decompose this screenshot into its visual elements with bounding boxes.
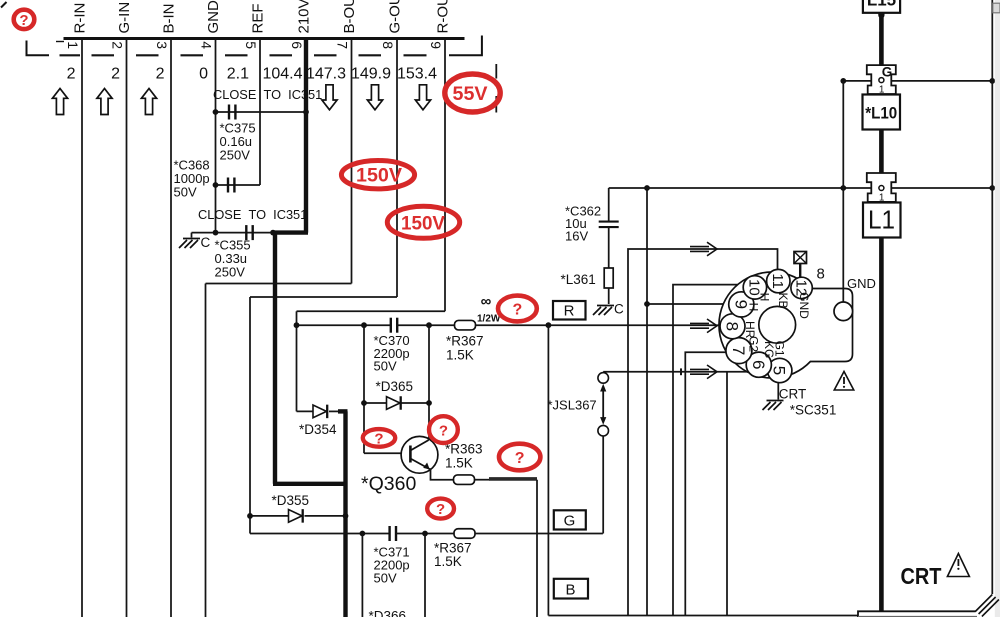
capacitor C371 xyxy=(388,526,390,541)
wire 210V thick rail down to bottom xyxy=(343,411,347,617)
X-box symbol above pin12 xyxy=(794,252,807,278)
wire collector branch vertical xyxy=(428,325,430,440)
wire pin5 REF vertical xyxy=(259,40,261,185)
svg-text:*L10: *L10 xyxy=(865,103,897,122)
wire pin3 B-IN vertical xyxy=(170,40,172,617)
wire 210V thick elbow to C355 junction xyxy=(273,230,308,234)
connector G top xyxy=(867,65,896,94)
svg-text:8: 8 xyxy=(723,322,742,331)
warning triangle CRT xyxy=(947,554,969,577)
wire pin8 G-OUT vertical xyxy=(396,40,398,297)
junction rail right top xyxy=(989,78,995,84)
wire G row left xyxy=(250,533,390,535)
svg-text:C: C xyxy=(614,302,624,317)
wire pin10 heater row xyxy=(673,285,750,616)
resistor R367 upper xyxy=(455,320,476,330)
svg-text:*L361: *L361 xyxy=(561,272,596,287)
svg-text:G1: G1 xyxy=(773,341,787,357)
svg-text:9: 9 xyxy=(428,41,444,49)
svg-text:50V: 50V xyxy=(174,185,197,200)
thick marked wire segment xyxy=(489,477,537,481)
wire R row mid xyxy=(397,324,455,326)
wire G1 branch down xyxy=(726,372,728,616)
wire D354 to 210V rail xyxy=(329,410,340,412)
svg-text:R-IN: R-IN xyxy=(72,3,89,34)
input arrows pins 1-3 xyxy=(52,89,156,115)
wire R line vertical xyxy=(296,311,298,411)
bottom bus line xyxy=(548,615,858,617)
label C371 value xyxy=(374,545,410,586)
junction D365 left xyxy=(361,400,367,406)
svg-text:R-OU: R-OU xyxy=(435,0,452,34)
wire D354 row xyxy=(297,410,314,412)
svg-text:250V: 250V xyxy=(220,148,251,163)
junction G row right branch xyxy=(422,531,428,537)
wire R row right to CRT socket pin8 xyxy=(476,324,727,326)
red query oval right of Q360 xyxy=(499,444,540,471)
connector dashed outline left bracket xyxy=(27,41,50,56)
crossover tick on G1 row xyxy=(680,368,682,375)
svg-text:?: ? xyxy=(19,12,28,29)
svg-text:2: 2 xyxy=(110,41,126,49)
socket pin 9 xyxy=(729,292,754,317)
svg-text:B: B xyxy=(565,581,575,598)
wire pin9 heater row xyxy=(647,303,730,305)
resistor R363 xyxy=(454,475,475,485)
svg-text:4: 4 xyxy=(199,41,215,49)
svg-text:150V: 150V xyxy=(401,212,445,234)
svg-text:1.5K: 1.5K xyxy=(434,554,462,569)
hollow arrow G1 row xyxy=(690,365,717,379)
svg-text:147.3: 147.3 xyxy=(306,66,346,83)
wire 210V thick vertical down xyxy=(273,231,277,484)
svg-text:G2: G2 xyxy=(747,336,761,352)
label R363 value xyxy=(445,442,483,471)
wire heater vertical from rail xyxy=(646,188,648,616)
transistor Q360 xyxy=(401,436,438,473)
wire C362 to L361 xyxy=(608,227,610,268)
svg-text:CRT: CRT xyxy=(901,563,942,589)
svg-text:*R367: *R367 xyxy=(446,334,484,349)
wire D365 row xyxy=(364,402,429,404)
svg-text:*Q360: *Q360 xyxy=(361,473,416,495)
red oval 150V first xyxy=(341,161,414,189)
svg-text:8: 8 xyxy=(380,41,396,49)
wire thick CRT line top xyxy=(879,13,884,67)
svg-text:REF: REF xyxy=(250,4,267,34)
svg-text:H: H xyxy=(747,303,761,312)
node R box xyxy=(553,301,586,320)
red query oval above R363 xyxy=(429,416,458,443)
svg-text:7: 7 xyxy=(729,346,748,355)
connector mid xyxy=(867,173,896,202)
small grey box top right xyxy=(993,3,1000,13)
wire socket gnd inside tab xyxy=(842,289,844,304)
red query oval left of Q360 xyxy=(363,429,395,447)
svg-text:1: 1 xyxy=(65,41,81,49)
wire base branch vertical xyxy=(363,325,365,453)
svg-text:150V: 150V xyxy=(356,165,402,187)
wire pin2 G-IN vertical xyxy=(126,40,128,617)
svg-text:?: ? xyxy=(515,450,525,467)
wire pin5 to CRT ground xyxy=(777,383,779,400)
socket pin 8 xyxy=(720,314,745,339)
svg-text:G: G xyxy=(564,512,576,529)
wire pin9 R-OUT horizontal xyxy=(297,310,446,312)
junction G line D355 xyxy=(247,513,253,519)
svg-text:GND: GND xyxy=(205,0,222,34)
svg-text:G-IN: G-IN xyxy=(116,2,133,34)
junction C375-210V xyxy=(303,109,309,115)
svg-text:250V: 250V xyxy=(215,265,246,280)
wire pin1 R-IN vertical xyxy=(81,40,83,617)
junction C355-210V xyxy=(270,230,276,236)
junction rail right second xyxy=(989,185,995,191)
junction R row collector branch xyxy=(426,322,432,328)
junction heater pin9 row xyxy=(644,301,650,307)
svg-text:*D354: *D354 xyxy=(299,422,337,437)
svg-text:*D366: *D366 xyxy=(369,609,407,617)
wire second rail y188 xyxy=(609,187,993,189)
socket pin 5 xyxy=(768,358,792,382)
wire C355 row xyxy=(192,232,274,234)
CRT bevel hatching xyxy=(975,595,999,617)
connector dashed vertical right xyxy=(495,64,497,113)
svg-text:55V: 55V xyxy=(453,83,488,105)
svg-text:8: 8 xyxy=(817,266,825,283)
socket gnd lug circle xyxy=(834,302,853,321)
svg-text:R: R xyxy=(564,303,575,320)
junction D365 right xyxy=(426,400,432,406)
svg-text:7: 7 xyxy=(335,41,351,49)
node B box xyxy=(554,579,588,599)
svg-text:2: 2 xyxy=(156,66,165,83)
svg-text:*JSL367: *JSL367 xyxy=(548,398,597,413)
connector dashed outline right bracket xyxy=(449,36,482,56)
svg-text:∞: ∞ xyxy=(481,293,492,310)
red query circle top left xyxy=(14,10,35,29)
svg-text:1.5K: 1.5K xyxy=(445,456,473,471)
connector bar (IC side edge) xyxy=(56,37,465,42)
junction pin4-C355 xyxy=(213,230,219,236)
capacitor C375 xyxy=(228,105,230,120)
junction G row left branch xyxy=(360,531,366,537)
junction R row down branch xyxy=(546,322,552,328)
wire C368 row xyxy=(216,184,261,186)
svg-text:5: 5 xyxy=(770,366,789,375)
CRT socket SC351 body xyxy=(719,272,853,378)
svg-text:*D355: *D355 xyxy=(272,493,310,508)
wire G row mid xyxy=(396,533,454,535)
inductor L1 box xyxy=(863,203,901,238)
red oval 150V second xyxy=(387,206,459,238)
svg-text:11: 11 xyxy=(769,273,786,289)
svg-text:1.5K: 1.5K xyxy=(446,348,474,363)
junction rail gnd top xyxy=(840,78,846,84)
svg-text:*SC351: *SC351 xyxy=(790,403,837,418)
CRT neck box xyxy=(858,611,976,617)
CRT box bottom grey line xyxy=(858,616,977,617)
wire pin7 B-OUT horizontal xyxy=(206,283,352,285)
label C355 value xyxy=(215,238,251,280)
junction thick line top xyxy=(878,12,884,18)
wire 210V thick horizontal at y484 xyxy=(273,482,348,486)
socket pin 10 xyxy=(743,276,766,299)
label R367 lower value xyxy=(434,541,472,570)
capacitor C362 xyxy=(599,220,619,222)
svg-text:?: ? xyxy=(439,422,448,439)
wire B line vertical to bottom xyxy=(205,284,207,617)
svg-text:50V: 50V xyxy=(374,571,397,586)
svg-text:?: ? xyxy=(513,302,523,319)
svg-text:104.4: 104.4 xyxy=(262,66,302,83)
svg-text:GND: GND xyxy=(797,292,811,319)
wire rail to C362 xyxy=(608,188,610,221)
svg-text:210V: 210V xyxy=(296,0,313,34)
socket pin 11 xyxy=(767,269,790,292)
wire pin9 R-OUT vertical xyxy=(444,40,446,311)
svg-text:0: 0 xyxy=(199,66,208,83)
svg-text:*R363: *R363 xyxy=(445,442,483,457)
wire base into Q360 xyxy=(364,452,409,454)
svg-text:6: 6 xyxy=(749,360,768,369)
node G box xyxy=(554,510,586,529)
label R367 upper value xyxy=(446,334,484,363)
red oval 55V xyxy=(445,74,500,112)
junction heater rail xyxy=(644,185,650,191)
right border vertical xyxy=(991,0,993,594)
socket pin 7 xyxy=(726,338,752,364)
svg-text:1/2W: 1/2W xyxy=(477,314,501,325)
junction R row base branch xyxy=(361,322,367,328)
wire pin7 B-OUT vertical xyxy=(351,40,353,284)
stray mark top-left corner xyxy=(1,2,7,8)
svg-text:5: 5 xyxy=(243,41,259,49)
wire emitter down xyxy=(430,469,454,480)
wire G branch down left xyxy=(361,534,363,617)
label C370 value xyxy=(374,333,410,373)
diode D354 xyxy=(313,405,327,418)
junction top box xyxy=(878,11,884,17)
wire G branch down right xyxy=(424,534,426,617)
junction pin4-C368 xyxy=(213,182,219,188)
junction rail gnd second xyxy=(840,185,846,191)
spark gap JSL367 xyxy=(598,373,609,534)
svg-text:50V: 50V xyxy=(374,358,397,373)
svg-text:H: H xyxy=(757,293,771,302)
socket pin 12 xyxy=(791,277,812,298)
wire G row right xyxy=(475,533,603,535)
connector dashed outline ticks xyxy=(60,54,427,56)
junction pin4-C375 xyxy=(213,109,219,115)
svg-text:B-IN: B-IN xyxy=(161,4,178,34)
svg-text:16V: 16V xyxy=(565,229,588,244)
socket pin 6 xyxy=(746,352,771,377)
svg-text:L1: L1 xyxy=(868,205,895,235)
svg-text:2: 2 xyxy=(67,66,76,83)
wire G1 row xyxy=(603,371,751,373)
wire D355 row xyxy=(250,515,289,517)
ground C right xyxy=(593,302,624,317)
inductor L10 box xyxy=(863,95,901,130)
svg-text:CRT: CRT xyxy=(779,387,807,402)
ground C near C355 xyxy=(179,233,211,250)
output arrows pins 7-9 xyxy=(322,85,431,110)
svg-text:2: 2 xyxy=(111,66,120,83)
svg-text:C: C xyxy=(201,235,211,250)
junction R line D354 xyxy=(294,322,300,328)
red query oval at R367 xyxy=(498,296,537,322)
svg-text:CLOSE TO IC351: CLOSE TO IC351 xyxy=(198,207,307,222)
svg-text:2.1: 2.1 xyxy=(227,66,249,83)
hollow arrow R row xyxy=(690,319,717,333)
capacitor C368 xyxy=(227,178,229,193)
resistor R367 lower xyxy=(454,529,475,539)
wire C375 row xyxy=(216,111,307,113)
wire thick L10 to connector2 xyxy=(879,130,884,177)
wire R row left xyxy=(297,324,392,326)
inductor L361 xyxy=(604,268,613,288)
label C375 value xyxy=(220,121,256,163)
svg-text:*D365: *D365 xyxy=(376,379,414,394)
svg-text:3: 3 xyxy=(154,41,170,49)
svg-text:?: ? xyxy=(436,501,445,518)
svg-text:CLOSE TO IC351: CLOSE TO IC351 xyxy=(213,87,322,102)
wire socket gnd vertical xyxy=(842,81,844,303)
wire KB row to pin11 xyxy=(628,249,778,616)
socket inner key circle xyxy=(759,306,796,343)
svg-text:B-OU: B-OU xyxy=(341,0,358,34)
wire pin6 210V vertical thick xyxy=(304,40,308,233)
label C362 value xyxy=(565,204,601,244)
svg-text:GND: GND xyxy=(847,276,876,291)
warning triangle SC351 xyxy=(834,372,854,391)
hollow arrow KB row xyxy=(690,242,717,256)
svg-text:KB: KB xyxy=(776,292,790,308)
svg-text:149.9: 149.9 xyxy=(351,66,391,83)
wire pin8 G-OUT horizontal xyxy=(250,296,397,298)
wire G2 row pin7 xyxy=(685,352,728,615)
svg-text:?: ? xyxy=(374,430,383,447)
label C368 value xyxy=(174,158,210,200)
wire emitter branch down to bottom xyxy=(536,480,538,617)
CRT ground symbol xyxy=(763,401,784,411)
diode D365 xyxy=(387,397,401,410)
wire top rail y80.9 xyxy=(843,80,992,82)
capacitor C355 xyxy=(245,225,247,240)
wire after R363 xyxy=(475,479,491,481)
svg-text:153.4: 153.4 xyxy=(397,66,437,83)
svg-text:G-OU: G-OU xyxy=(387,0,404,34)
capacitor C370 xyxy=(390,318,392,333)
red query oval below Q360 xyxy=(427,499,454,519)
svg-text:6: 6 xyxy=(289,41,305,49)
wire D355 to rail xyxy=(305,515,345,517)
top box L15 partial xyxy=(863,0,900,13)
wire pin4 GND vertical xyxy=(215,40,217,233)
wire G line vertical xyxy=(249,297,251,534)
wire R node branch down xyxy=(547,325,549,615)
grey page edge xyxy=(995,0,1000,617)
wire thick CRT cathode line xyxy=(879,238,884,612)
wire L361 to ground xyxy=(608,288,610,304)
svg-text:L15: L15 xyxy=(867,0,896,10)
junction rail D355 xyxy=(343,513,349,519)
svg-text:G: G xyxy=(882,65,893,80)
diode D355 xyxy=(289,510,303,523)
